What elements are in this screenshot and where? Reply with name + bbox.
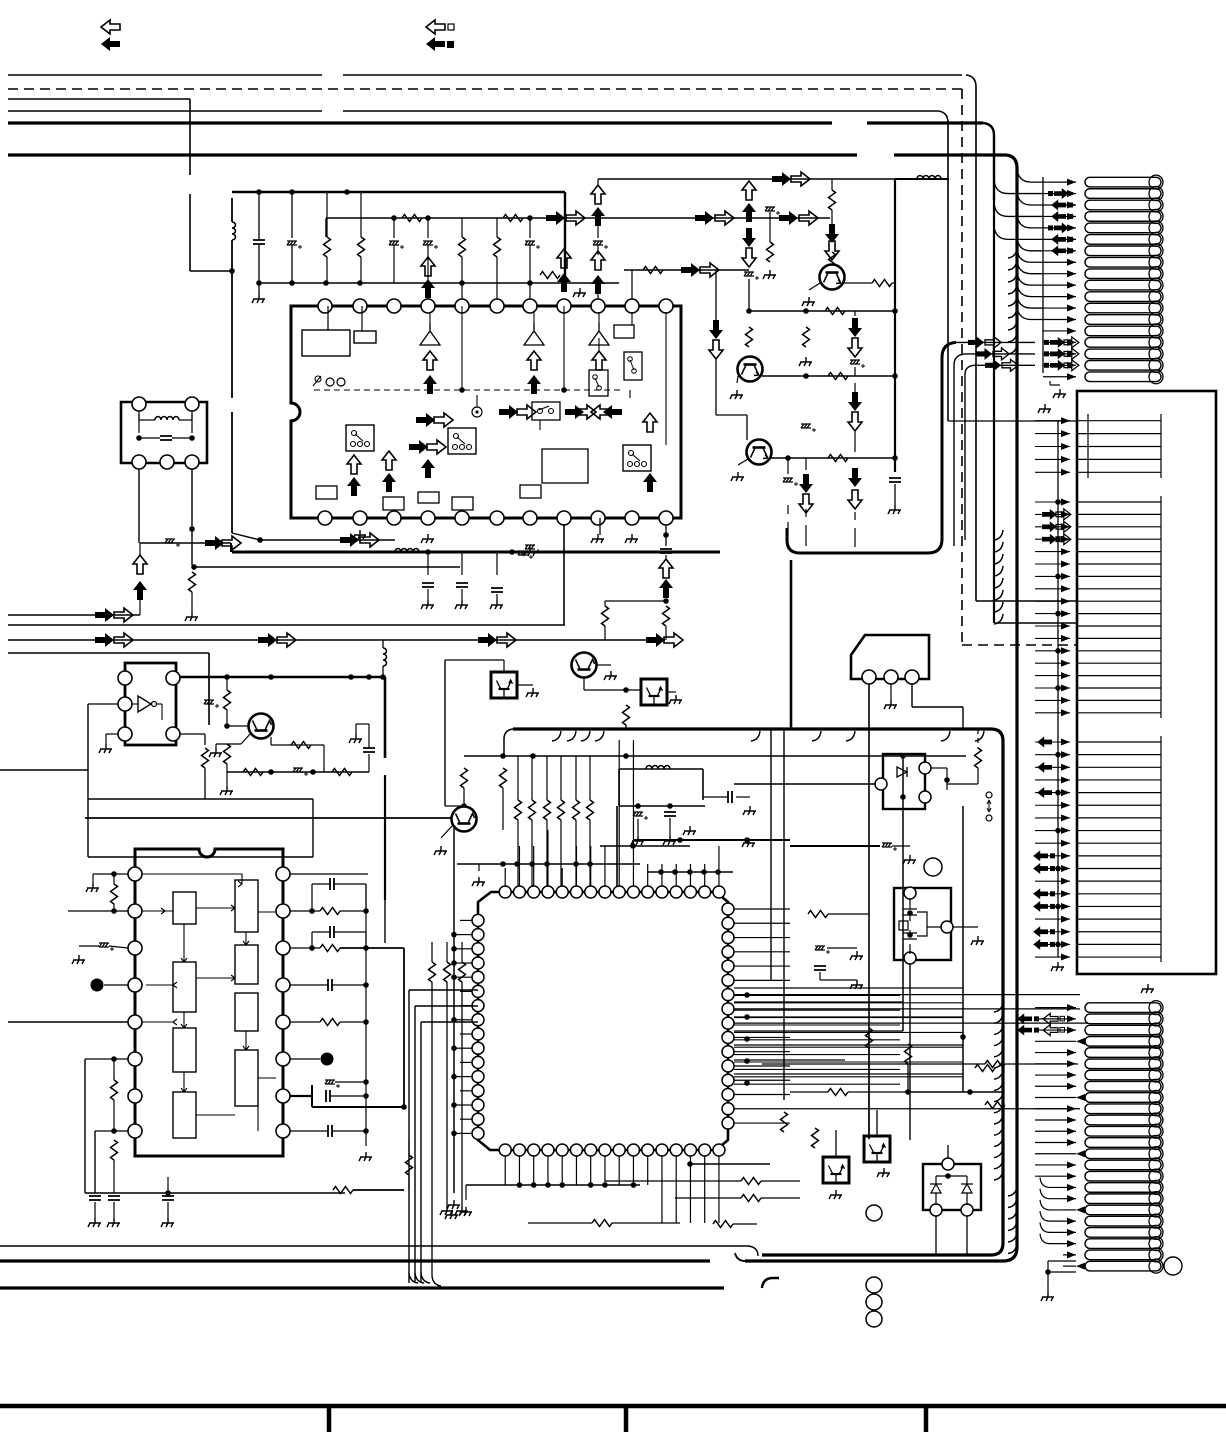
wire y769 [619,768,703,770]
w [463,788,465,806]
sq [1044,340,1049,345]
IC1 pin10 stub [631,312,633,325]
crystal internals [899,899,941,954]
CN-bot wire 10 [1035,1108,1076,1110]
G2 arrowhead 10 [1061,610,1070,617]
w [589,756,591,800]
bottom bus thin [0,1245,748,1247]
inductor L-left [232,222,236,240]
CN-top pill 14 [1085,326,1161,336]
QFP right pin wire 5 [734,965,790,967]
T1 pin tl [132,397,146,411]
QFP left pin wire 13 [460,1090,472,1092]
U triangle buffer [138,696,151,712]
QFP top pin 14 [684,886,696,898]
arrow up pin9 f [591,275,605,294]
curl2 [1040,1234,1063,1244]
none [88,703,118,705]
none [1017,1042,1035,1053]
gnd bottom bus [459,1207,472,1216]
bottom bus thick1 [0,1259,710,1262]
sq [1044,363,1049,368]
hook x432 [432,1276,441,1286]
G3 arrowhead 2 [1061,751,1070,758]
resistor on y219 b [503,215,523,222]
j [459,387,465,393]
QFP right bundle wire 11 [734,1068,900,1070]
G1 divider r [1160,414,1162,478]
IC1 bottom pin 8 [557,511,571,525]
bundle v1017 thick [1015,200,1018,1247]
w [597,218,599,238]
arrow down f x749 [742,228,756,247]
w [761,1197,800,1199]
w [531,820,533,886]
CN-right G2 stub 1 [1077,501,1161,503]
G2 wire 5 [1035,551,1070,553]
CN-bot arrowhead 21 [1067,1229,1076,1236]
IC1 int arrow fr2 [416,413,435,427]
resistor y772a [243,769,263,776]
w [113,904,115,911]
IC1 int arrow hu3 [527,351,541,370]
arrow below cap h [659,559,673,578]
G2 wire 10 [1035,613,1070,615]
G3 arrowhead 15 [1061,916,1070,923]
G2 arrowhead 11 [1061,623,1070,630]
CN-bot pill 6 [1085,1059,1161,1069]
CN-bot arrowhead 17 [1067,1184,1076,1191]
junction y283 [289,280,295,286]
IC2 left pin 3 [128,941,142,955]
wire pin11 down [665,525,667,546]
j [701,869,707,875]
IC1 pin9 stub [598,312,600,327]
QFP left pin wire 1 [460,919,472,921]
w [947,783,978,785]
w [854,383,856,392]
w [597,179,599,185]
QFP left pin 2 [472,929,484,941]
w [827,947,857,949]
wire right y988 [734,987,963,989]
wire y770 from edge [0,769,88,771]
wire y806 [619,805,705,807]
G2 arrowhead 8 [1061,585,1070,592]
none [977,927,979,936]
junction x232 [229,268,235,274]
arrow up h x598 [591,185,605,204]
gnd pin9b [591,534,604,543]
thick U path row1 [787,342,956,553]
transistor Q-c2 [452,807,477,832]
resistor x869 [866,1028,873,1048]
curl feed pill 11 [1017,283,1043,297]
CN-bot pill 24 [1085,1261,1161,1271]
w [382,666,384,677]
QFP top pin 13 [670,886,682,898]
resistor x462 [459,962,466,982]
CN-top pill 2 [1085,189,1161,199]
wire y1022 [421,1021,478,1023]
w [106,733,118,735]
G3 bold fl2 12 [1033,888,1048,899]
gnd x820b [850,980,863,989]
arrow down h x749 [742,248,756,267]
IC2 left pin 1 [128,867,142,881]
CN-top pill 15 [1085,338,1161,348]
w [703,796,728,798]
w [966,1216,968,1255]
test point 2 [321,1053,334,1066]
G3 arrowhead 4 [1061,776,1070,783]
QFP left pin 3 [472,943,484,955]
bundle v948 [947,200,949,421]
CN-right G2 stub 12 [1077,637,1161,639]
j [451,974,457,980]
CN-bot arrowhead 22 [1067,1240,1076,1247]
resistor y772b [332,769,352,776]
CN-bot arrowhead 2 [1067,1015,1076,1022]
j [587,861,593,867]
gnd mid-bottom [445,1210,458,1219]
none [588,1209,760,1211]
IC2 left pin 5 [128,1015,142,1029]
w [597,245,599,255]
resistor x770 [767,242,774,262]
none [769,179,771,203]
j [111,1128,117,1134]
G1 arrowhead 1 [1061,417,1070,424]
j [530,753,536,759]
CN-right G2 stub 18 [1077,712,1161,714]
wire v232 top [231,198,233,222]
j [366,674,372,680]
j [967,1089,973,1095]
curl x1003 0 [994,1002,1003,1012]
w [290,947,320,949]
pcap2 [525,545,540,553]
gnd Qr1 [730,390,743,399]
w [408,1140,410,1155]
curl feed pill 9 [1017,260,1043,274]
G2 bold h 3 [1056,534,1071,545]
resistor y1092 [828,1089,848,1096]
sq [1048,191,1053,196]
QFP left pin 1 [472,914,484,926]
QFP top pin wire 4 [547,830,549,886]
G3 bold fl2 16 [1033,939,1048,950]
hook below outline x604 [595,731,604,741]
none [734,913,808,915]
QFP right pin wire 1 [734,908,790,910]
G1 arrowhead 4 [1061,456,1070,463]
w [290,1130,328,1132]
QFP bottom pin 6 [570,1144,582,1156]
CN-right G2 stub 15 [1077,675,1161,677]
wire [461,589,463,600]
G2 wire 18 [1035,712,1070,714]
CN-right G3 stub 8 [1077,830,1161,832]
G1 wire 4 [1035,458,1070,460]
IC2 wire d [181,1012,187,1028]
IC1 bottom pin 1 [318,511,332,525]
diode inside [897,767,907,777]
j [348,674,354,680]
w [139,543,141,556]
QFP left pin wire 3 [460,948,472,950]
arrow y540 f [340,533,359,547]
CN-right G2 stub 4 [1077,538,1161,540]
IC2 r cap5 [328,1125,332,1137]
w [716,414,747,416]
arrow h row3 [1002,359,1018,371]
j [451,1045,457,1051]
gnd pin6b [523,547,536,556]
CN-bot arrowhead 12 [1067,1128,1076,1135]
G3 arrowhead 14 [1061,903,1070,910]
QFP right pin wire 15 [734,1108,1080,1110]
QFP top pin 9 [613,886,625,898]
ground below T1 [185,612,198,621]
IC1 bottom block4 [452,497,473,510]
hook below outline x561 [552,731,561,741]
junction [425,549,431,555]
resistor col x518 [515,800,522,820]
QFP right pin wire 10 [734,1036,790,1038]
none [427,659,504,661]
w [290,984,328,986]
gnd G3 bottom [1051,962,1064,971]
CN-bot wire 22 [1063,1243,1076,1245]
footer line [0,1404,1226,1409]
j [363,908,369,914]
bundle v976 [975,200,977,601]
CN-bot pill 11 [1085,1115,1161,1125]
IC1 top pin 10 [625,299,639,313]
IC2 wire i [196,975,235,981]
R row1 [324,237,331,257]
wire y1092 [908,1091,1003,1093]
QFP top pin wire 15 [704,864,706,886]
curl2 [1040,1222,1063,1232]
G2 arrowhead 5 [1061,548,1070,555]
wire above pcap x530 [529,218,531,238]
G2 bold f 2 [1042,521,1057,532]
IC2 left pin 4 [128,978,142,992]
CN-bot wire 2 [1035,1018,1076,1020]
IC2 r cap4 [326,1090,330,1102]
CN-bot wire 9 [1035,1097,1076,1099]
j [1055,499,1061,505]
none [789,909,791,1123]
pcap x820 [815,946,830,954]
w [445,805,464,807]
CN-bot pill 15 [1085,1160,1161,1170]
none [969,1092,971,1164]
G3 wire 4 [1035,779,1070,781]
IC2 right pin 6 [276,1052,290,1066]
QFP top pin 2 [513,886,525,898]
w [355,724,357,734]
XO pin right [941,921,953,933]
j [527,215,533,221]
CN-bot pill 2 [1085,1014,1161,1024]
footer tick 3 [924,1406,929,1432]
bundle v962 dashed [961,200,963,645]
QFP right bundle wire 3 [734,1009,900,1011]
resistor x666 [663,606,670,626]
QFP top pin 16 [713,886,725,898]
curl2 [1040,1189,1063,1199]
IC1 bottom pin 2 [353,511,367,525]
curl x1003 5 [994,1058,1003,1068]
w [946,768,948,790]
QFP bottom pin 14 [684,1144,696,1156]
QFP bottom pin wire 10 [632,1156,634,1185]
G3 bold fl2 10 [1033,863,1048,874]
curl mid 4 [994,578,1003,588]
w [330,1095,366,1097]
j [544,861,550,867]
IC2 wire l [196,912,276,1131]
gnd x895 bottom [888,505,901,514]
wire IC2 right rail [365,884,367,1131]
thick bottom corner [745,1247,1017,1261]
G3 arrowhead 5 [1061,789,1070,796]
gnd x770 [763,270,776,279]
w [736,796,750,798]
QFP bottom pin 8 [599,1144,611,1156]
G1 divider [1087,414,1089,478]
j [1055,828,1061,834]
j [623,753,629,759]
w [408,1175,410,1190]
w [761,1180,800,1182]
transistor Q-r3 [747,440,772,465]
wire y601 [605,600,666,602]
none [931,796,947,798]
resistor x447 [444,962,451,982]
w [890,684,892,700]
transistor Q-r1 [738,357,763,382]
bus line1 corner-down [966,75,976,200]
sq [1050,866,1055,871]
CN-bot wire 13 [1035,1141,1076,1143]
arrow y640 f2 [258,633,277,647]
none [835,1182,837,1190]
IC1 bottom pin 11 [659,511,673,525]
QFP left pin wire 5 [460,976,472,978]
IC1 switch box 1 [346,425,374,451]
G3 wire 12 [1035,880,1070,882]
IC1 misc wires [540,338,630,430]
legend arrow filled-left [101,37,120,51]
j [715,869,721,875]
QFP right bundle wire 12 [734,1076,963,1078]
j [1055,685,1061,691]
bus line6a thick [8,153,857,156]
wire [496,594,498,600]
U pin br [166,727,180,741]
IC2 right pin 3 [276,941,290,955]
wire above R row1 [326,192,328,237]
resistor Qr2 out [872,280,892,287]
w [665,626,667,640]
none [748,155,750,190]
QFP left pin wire 16 [460,1132,472,1134]
w [953,926,978,928]
vert x903 [902,756,904,1031]
CN-bot arrowhead 1 [1067,1004,1076,1011]
IC1 switch box 6 [623,445,651,471]
IC1 int arrow hr4 [577,405,596,419]
w [854,430,856,452]
CN-right G2 stub 3 [1077,526,1161,528]
sq [1050,942,1055,947]
IC1 int arrow hl [591,405,610,419]
none [583,645,585,677]
none [68,873,93,875]
j [1055,904,1061,910]
CN-bot pill 23 [1085,1250,1161,1260]
curl mid 3 [994,566,1003,576]
QFP left pin wire 14 [460,1104,472,1106]
w [104,984,128,986]
j [309,945,315,951]
arrow y270 h [700,263,719,277]
IC2 wire g [243,1031,249,1050]
IC1 bottom pin 6 [490,511,504,525]
w [1047,1261,1049,1272]
R row3 [459,237,466,257]
wire T1 br down [191,469,193,529]
IC2 block 2 [235,880,258,932]
vert x415 [414,1006,416,1283]
j [588,1182,594,1188]
CN-right G3 stub 1 [1077,741,1161,743]
QFP left pin 5 [472,971,484,983]
resistor x806 [803,327,810,347]
IC1 bottom pin 4 [421,511,435,525]
arrow y640 h1 [114,633,133,647]
curl x1003 4 [994,1047,1003,1057]
w [931,767,947,769]
arrow up f x749 [742,203,756,222]
j [136,435,142,441]
hook end [748,1246,758,1256]
IC1 top pin 9 [591,299,605,313]
wire v232b [231,412,233,533]
w [312,883,330,885]
QFP left pin wire 10 [460,1047,472,1049]
IC1 int arrow hu1b [382,451,396,470]
IC1 int arrow hr2 [434,413,453,427]
arrow y615 h [114,608,133,622]
junction [257,537,263,543]
pcap x598 [593,241,608,249]
IC1 top pin 5 [455,299,469,313]
w [365,932,367,948]
G3 arrowhead 12 [1061,878,1070,885]
CN-top wire 11 [1043,296,1076,298]
wire x85 down [84,1059,86,1193]
wire y640 [8,639,665,641]
IC1 block A [302,330,350,356]
CN-right G3 stub 6 [1077,804,1161,806]
IC2 wire j [146,982,276,1078]
arrow down h x832 [825,241,839,260]
